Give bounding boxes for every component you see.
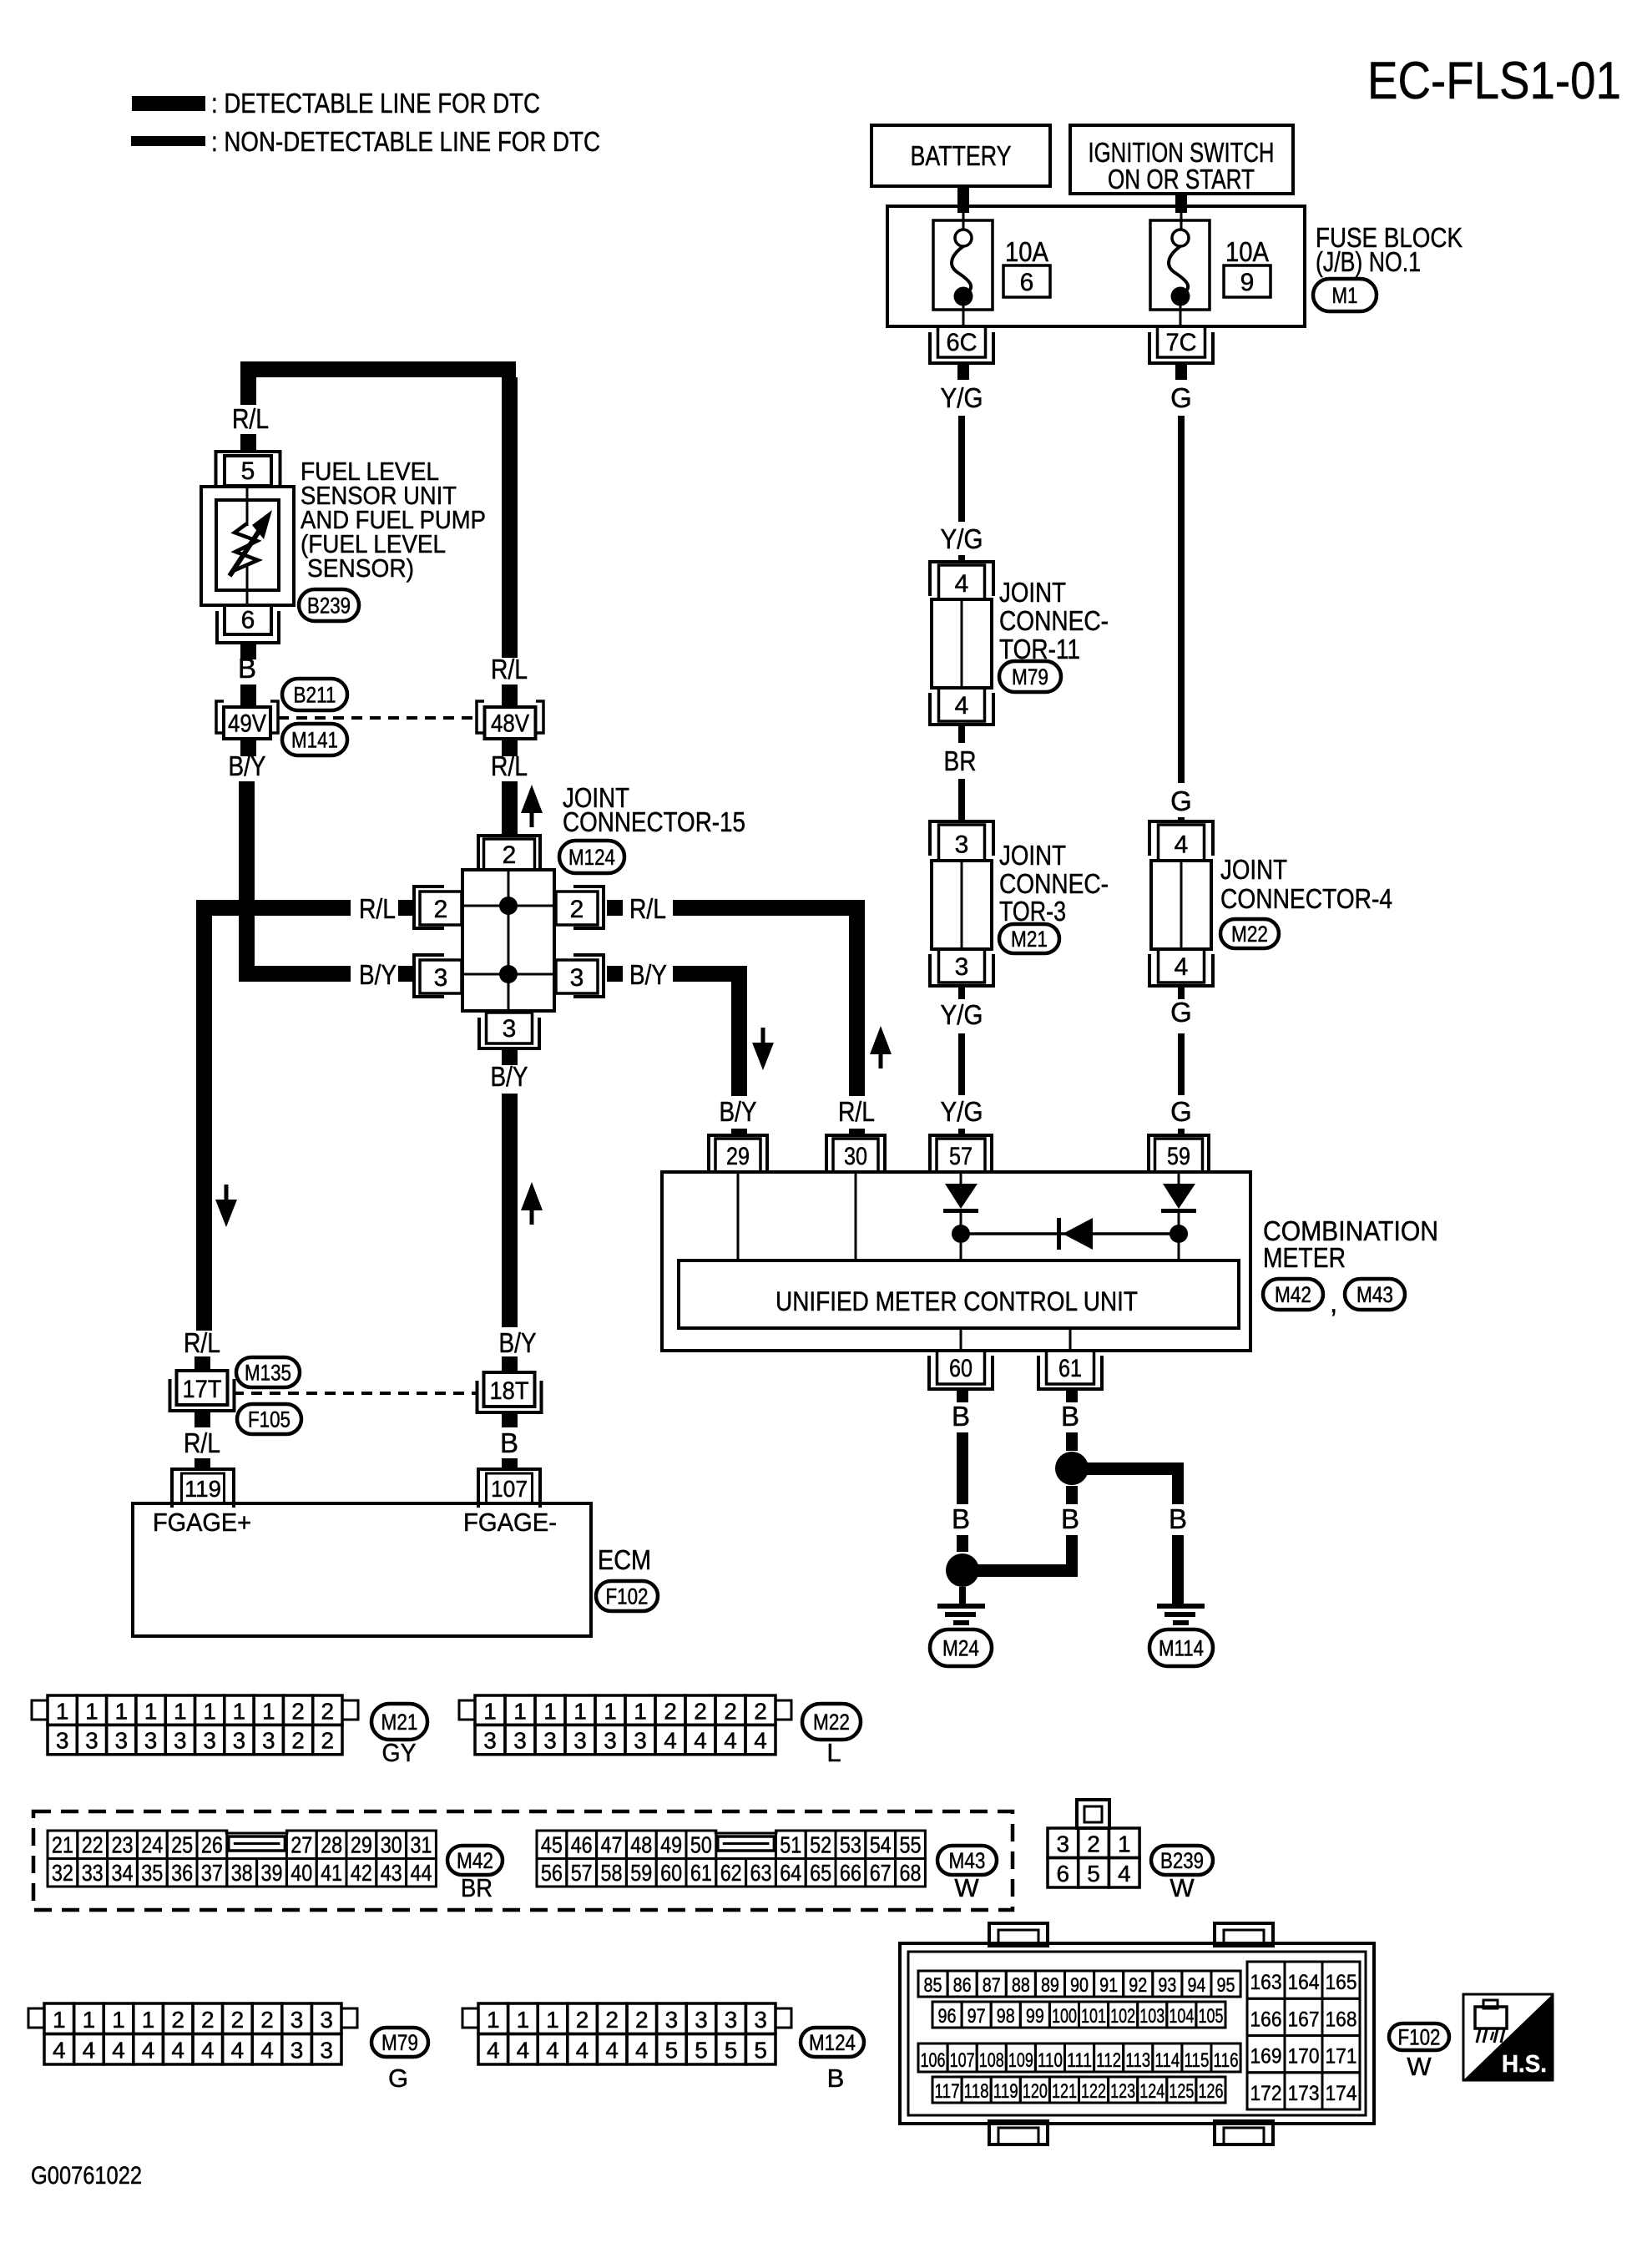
svg-text:B: B xyxy=(827,2064,845,2093)
wire stub above pin 119 xyxy=(195,1458,210,1469)
svg-text:35: 35 xyxy=(141,1860,163,1886)
wire stub above JC-4 xyxy=(1178,817,1185,822)
wire battery to fuse block xyxy=(957,186,969,230)
svg-text:10A: 10A xyxy=(1225,236,1269,267)
svg-text:22: 22 xyxy=(82,1832,104,1858)
svg-text:58: 58 xyxy=(601,1860,623,1886)
ground symbol M24 xyxy=(937,1604,985,1625)
svg-text:111: 111 xyxy=(1067,2049,1092,2072)
svg-text:4: 4 xyxy=(487,2038,500,2064)
connector M42 oval (pinout) xyxy=(447,1846,503,1875)
meter diode D3 (bus, pointing left) xyxy=(1057,1218,1093,1250)
wire 48V to JC-15 xyxy=(502,781,518,835)
svg-text:94: 94 xyxy=(1187,1974,1205,1997)
svg-text:1: 1 xyxy=(85,1698,99,1724)
svg-text:SENSOR): SENSOR) xyxy=(307,553,414,583)
svg-text:M79: M79 xyxy=(1012,664,1048,690)
svg-text:6: 6 xyxy=(1020,269,1034,296)
svg-text:: NON-DETECTABLE LINE FOR DTC: : NON-DETECTABLE LINE FOR DTC xyxy=(211,126,600,157)
wire stub below JC-15 bottom pin xyxy=(502,1050,518,1065)
svg-text:24: 24 xyxy=(141,1832,163,1858)
svg-text:6: 6 xyxy=(241,606,255,634)
svg-text:BATTERY: BATTERY xyxy=(911,140,1012,171)
svg-text:108: 108 xyxy=(979,2049,1004,2072)
svg-text:6: 6 xyxy=(1057,1861,1070,1887)
title EC-FLS1-01 xyxy=(1367,52,1621,110)
joint connector-4 body xyxy=(1151,861,1211,949)
svg-text:57: 57 xyxy=(571,1860,593,1886)
svg-text:25: 25 xyxy=(171,1832,193,1858)
svg-text:M21: M21 xyxy=(381,1710,418,1735)
svg-text:3: 3 xyxy=(203,1728,216,1754)
label R/L below 48V xyxy=(491,750,528,781)
svg-text:M22: M22 xyxy=(813,1710,850,1735)
svg-text:1: 1 xyxy=(513,1698,527,1724)
svg-text:2: 2 xyxy=(576,2007,589,2033)
svg-text:3: 3 xyxy=(174,1728,187,1754)
svg-text:1: 1 xyxy=(573,1698,587,1724)
svg-text:5: 5 xyxy=(695,2038,708,2064)
svg-text:3: 3 xyxy=(573,1728,587,1754)
svg-text:B/Y: B/Y xyxy=(499,1327,537,1358)
fuse F2 number box 9 xyxy=(1224,265,1271,297)
label R/L below 17T xyxy=(184,1427,220,1458)
junction dot JC-15 upper xyxy=(499,897,518,915)
wire stub above 18T xyxy=(502,1356,518,1372)
svg-text:23: 23 xyxy=(112,1832,134,1858)
wire stub above pin 57 xyxy=(958,1129,965,1136)
joint connector-15 left pin 3 xyxy=(414,955,462,997)
connector M24 oval xyxy=(930,1629,992,1666)
connector 7C xyxy=(1149,326,1213,363)
ignition switch box xyxy=(1070,125,1293,194)
svg-text:39: 39 xyxy=(261,1860,283,1886)
svg-text:5: 5 xyxy=(754,2038,767,2064)
wire R/L stub right pin 2 xyxy=(607,900,623,916)
joint connector-4 bottom pin 4 xyxy=(1149,949,1213,986)
joint connector-4 top pin 4 xyxy=(1149,821,1213,861)
svg-text:Y/G: Y/G xyxy=(941,382,983,413)
svg-text:117: 117 xyxy=(935,2080,960,2103)
wire branch to right xyxy=(1087,1462,1184,1475)
svg-text:34: 34 xyxy=(112,1860,134,1886)
svg-text:38: 38 xyxy=(231,1860,253,1886)
svg-text:B/Y: B/Y xyxy=(229,750,266,781)
junction dot above M24 ground xyxy=(946,1553,979,1587)
arrow down (to ECM FGAGE+) xyxy=(215,1185,237,1227)
svg-text:1: 1 xyxy=(546,2007,559,2033)
svg-text:95: 95 xyxy=(1217,1974,1235,1997)
meter pin 59 xyxy=(1149,1135,1209,1174)
joint connector-11 body xyxy=(932,599,992,688)
unified meter control unit box xyxy=(679,1260,1239,1328)
svg-text:114: 114 xyxy=(1154,2049,1180,2072)
svg-text:57: 57 xyxy=(949,1143,973,1170)
ground symbol M114 xyxy=(1157,1604,1205,1625)
svg-text:B/Y: B/Y xyxy=(491,1061,528,1092)
svg-text:67: 67 xyxy=(870,1860,892,1886)
H.S. view icon xyxy=(1463,1994,1553,2080)
svg-text:2: 2 xyxy=(664,1698,677,1724)
arrow up (into JC-15 from below) xyxy=(521,1182,543,1225)
figure number G00761022 xyxy=(31,2162,142,2190)
svg-text:H.S.: H.S. xyxy=(1502,2051,1547,2078)
svg-text:47: 47 xyxy=(601,1832,623,1858)
svg-text:52: 52 xyxy=(810,1832,831,1858)
svg-text:(J/B) NO.1: (J/B) NO.1 xyxy=(1316,246,1421,277)
svg-text:40: 40 xyxy=(290,1860,312,1886)
svg-text:: DETECTABLE LINE FOR DTC: : DETECTABLE LINE FOR DTC xyxy=(211,88,540,119)
svg-text:118: 118 xyxy=(964,2080,989,2103)
svg-text:93: 93 xyxy=(1158,1974,1176,1997)
svg-text:R/L: R/L xyxy=(232,403,269,434)
svg-text:3: 3 xyxy=(725,2007,738,2033)
label G below 7C xyxy=(1170,382,1192,413)
junction dot meter right xyxy=(1170,1225,1188,1243)
svg-text:4: 4 xyxy=(1175,831,1189,859)
svg-text:68: 68 xyxy=(900,1860,922,1886)
svg-text:125: 125 xyxy=(1169,2080,1194,2103)
svg-text:27: 27 xyxy=(290,1832,312,1858)
connector M135 oval xyxy=(236,1357,300,1387)
svg-text:65: 65 xyxy=(810,1860,831,1886)
svg-text:3: 3 xyxy=(290,2038,304,2064)
svg-text:3: 3 xyxy=(665,2007,679,2033)
svg-text:113: 113 xyxy=(1125,2049,1150,2072)
wire top bar (R/L) xyxy=(240,361,516,377)
connector F102 oval xyxy=(596,1581,658,1611)
connector B239 latch xyxy=(1077,1800,1109,1828)
wire stub below pin 60 xyxy=(957,1389,968,1402)
joint connector-15 left pin 2 xyxy=(414,887,462,928)
svg-text:FGAGE+: FGAGE+ xyxy=(153,1508,251,1537)
svg-text:2: 2 xyxy=(503,841,517,869)
label R/L above 48V xyxy=(491,654,528,685)
comma between M42 M43 xyxy=(1330,1287,1337,1318)
svg-text:4: 4 xyxy=(171,2038,184,2064)
svg-text:3: 3 xyxy=(434,964,448,992)
label R/L right of JC-15 xyxy=(629,893,666,924)
svg-text:17T: 17T xyxy=(183,1376,222,1403)
svg-text:30: 30 xyxy=(844,1143,867,1170)
svg-text:JOINT: JOINT xyxy=(1220,854,1287,885)
svg-text:R/L: R/L xyxy=(491,654,528,685)
label R/L top left xyxy=(232,403,269,434)
svg-text:10A: 10A xyxy=(1005,236,1048,267)
svg-text:101: 101 xyxy=(1081,2005,1106,2028)
wire stub below JC-4 xyxy=(1178,986,1185,999)
svg-text:3: 3 xyxy=(56,1728,69,1754)
wire B/Y JC-15 to 18T xyxy=(502,1094,518,1327)
svg-text:86: 86 xyxy=(953,1974,972,1997)
meter internal wires to pins 60 61 xyxy=(961,1328,1070,1351)
svg-text:85: 85 xyxy=(924,1974,942,1997)
svg-text:3: 3 xyxy=(320,2007,333,2033)
svg-text:CONNECTOR-15: CONNECTOR-15 xyxy=(563,806,745,837)
label BR xyxy=(944,745,977,776)
svg-text:5: 5 xyxy=(665,2038,679,2064)
svg-text:2: 2 xyxy=(260,2007,274,2033)
svg-text:M124: M124 xyxy=(568,845,615,870)
wire B/Y row right segment xyxy=(673,966,747,982)
wire stub below JC-3 xyxy=(958,986,965,999)
svg-text:G: G xyxy=(1170,382,1192,413)
svg-text:116: 116 xyxy=(1214,2049,1239,2072)
svg-text:4: 4 xyxy=(1118,1861,1131,1887)
joint connector-11 label xyxy=(999,577,1109,664)
svg-text:42: 42 xyxy=(351,1860,372,1886)
wire stub below 7C xyxy=(1175,365,1187,380)
joint connector-3 bottom pin 3 xyxy=(930,949,993,986)
svg-text:92: 92 xyxy=(1129,1974,1147,1997)
wire stub below 17T xyxy=(195,1411,210,1427)
svg-text:43: 43 xyxy=(381,1860,402,1886)
svg-text:CONNEC-: CONNEC- xyxy=(999,605,1109,636)
svg-text:GY: GY xyxy=(382,1738,417,1767)
connector B239 oval xyxy=(299,589,359,621)
svg-text:M141: M141 xyxy=(291,728,338,753)
svg-text:G: G xyxy=(1170,997,1192,1028)
connector M21 oval (pinout) xyxy=(371,1704,427,1740)
label B below pin 60 xyxy=(952,1401,970,1432)
wire ignition to fuse block xyxy=(1175,194,1187,230)
svg-text:3: 3 xyxy=(695,2007,708,2033)
svg-text:F105: F105 xyxy=(248,1407,290,1432)
dashed link 17T-18T xyxy=(233,1392,477,1395)
svg-text:50: 50 xyxy=(690,1832,712,1858)
svg-text:M24: M24 xyxy=(942,1636,979,1661)
joint connector-3 top pin 3 xyxy=(930,821,993,861)
svg-text:170: 170 xyxy=(1288,2045,1320,2069)
svg-text:B: B xyxy=(1061,1503,1079,1534)
connector M21 oval (JC-3) xyxy=(999,924,1059,953)
svg-text:44: 44 xyxy=(411,1860,432,1886)
svg-text:5: 5 xyxy=(725,2038,738,2064)
fuse F1 rating 10A label xyxy=(1005,236,1048,267)
svg-text:36: 36 xyxy=(171,1860,193,1886)
fuse block label xyxy=(1316,222,1463,277)
label R/L above 17T xyxy=(184,1327,220,1358)
wire left vertical drop to ECM xyxy=(196,900,212,1331)
label R/L left of JC-15 xyxy=(359,893,396,924)
wire right drop from top bar to 48V xyxy=(502,377,518,658)
combination meter label xyxy=(1263,1215,1438,1273)
svg-text:4: 4 xyxy=(664,1728,677,1754)
svg-text:61: 61 xyxy=(690,1860,712,1886)
svg-text:4: 4 xyxy=(955,692,969,720)
wire stub below 48V xyxy=(502,739,518,756)
svg-text:1: 1 xyxy=(56,1698,69,1724)
wire R/L drop to pin 30 xyxy=(849,916,865,1096)
svg-text:BR: BR xyxy=(461,1873,493,1902)
svg-text:1: 1 xyxy=(114,1698,128,1724)
svg-text:B211: B211 xyxy=(294,683,336,708)
svg-text:126: 126 xyxy=(1198,2080,1223,2103)
svg-text:1: 1 xyxy=(83,2007,96,2033)
svg-text:104: 104 xyxy=(1169,2005,1194,2028)
label W (B239) xyxy=(1170,1873,1195,1902)
svg-text:66: 66 xyxy=(840,1860,861,1886)
connector F105 oval xyxy=(237,1404,301,1434)
svg-text:2: 2 xyxy=(754,1698,767,1724)
joint connector-15 bottom pin 3 xyxy=(479,1013,539,1048)
meter pin 29 xyxy=(709,1135,767,1174)
svg-text:3: 3 xyxy=(144,1728,158,1754)
label G below JC-4 xyxy=(1170,997,1192,1028)
connector grid M43 xyxy=(537,1831,925,1887)
joint connector-15 label xyxy=(563,782,745,837)
svg-text:G: G xyxy=(1170,786,1192,816)
svg-text:4: 4 xyxy=(605,2038,619,2064)
label Y/G below 6C xyxy=(941,382,983,413)
dashed group box M42 M43 xyxy=(33,1811,1013,1910)
svg-text:Y/G: Y/G xyxy=(941,999,983,1030)
wire BR JC-11 to JC-3 xyxy=(958,779,965,821)
svg-text:102: 102 xyxy=(1110,2005,1135,2028)
wire B to horizontal link xyxy=(1066,1535,1078,1577)
joint connector-3 label xyxy=(999,840,1109,927)
wire stub below 49V xyxy=(240,739,256,756)
svg-text:98: 98 xyxy=(997,2005,1015,2028)
connector M124 oval (JC-15) xyxy=(559,841,624,873)
svg-text:2: 2 xyxy=(570,896,584,923)
connector M79 oval xyxy=(999,661,1061,692)
svg-text:3: 3 xyxy=(604,1728,617,1754)
connector grid M79 xyxy=(28,2003,357,2064)
connector grid M22 xyxy=(459,1695,791,1755)
svg-text:31: 31 xyxy=(411,1832,432,1858)
connector F102 shell xyxy=(900,1923,1374,2144)
legend: non-detectable line caption xyxy=(211,126,600,157)
svg-text:3: 3 xyxy=(543,1728,557,1754)
svg-text:21: 21 xyxy=(52,1832,73,1858)
svg-text:5: 5 xyxy=(241,457,255,485)
svg-text:49V: 49V xyxy=(228,710,266,738)
wire stub above pin 107 xyxy=(502,1458,518,1469)
wire Y/G 6C to JC-11 xyxy=(958,416,965,522)
combination meter box xyxy=(662,1172,1250,1351)
svg-text:G00761022: G00761022 xyxy=(31,2162,142,2190)
label G (M79) xyxy=(388,2064,408,2093)
svg-text:1: 1 xyxy=(262,1698,275,1724)
wire B pin 60 down xyxy=(957,1432,968,1504)
label G above pin 59 xyxy=(1170,1096,1192,1127)
label B below pin 61 xyxy=(1061,1401,1079,1432)
label B/Y above pin 29 xyxy=(720,1096,757,1127)
label G above JC-4 xyxy=(1170,786,1192,816)
svg-text:46: 46 xyxy=(571,1832,593,1858)
svg-text:1: 1 xyxy=(487,2007,500,2033)
svg-text:B/Y: B/Y xyxy=(720,1096,757,1127)
wire stub above JC-11 xyxy=(958,555,965,563)
label L xyxy=(826,1738,841,1767)
svg-text:1: 1 xyxy=(1118,1831,1131,1856)
connector M22 oval (pinout) xyxy=(802,1704,861,1740)
svg-text:4: 4 xyxy=(83,2038,96,2064)
label Y/G below JC-3 xyxy=(941,999,983,1030)
svg-text:96: 96 xyxy=(938,2005,957,2028)
svg-text:B239: B239 xyxy=(1160,1848,1204,1873)
svg-text:M43: M43 xyxy=(1356,1282,1393,1307)
svg-text:121: 121 xyxy=(1052,2080,1077,2103)
svg-text:4: 4 xyxy=(231,2038,245,2064)
svg-text:3: 3 xyxy=(85,1728,99,1754)
ECM pin 119 xyxy=(172,1469,234,1508)
svg-text:B: B xyxy=(1169,1503,1187,1534)
svg-text:BR: BR xyxy=(944,745,977,776)
svg-text:90: 90 xyxy=(1070,1974,1089,1997)
svg-text:168: 168 xyxy=(1326,2008,1357,2031)
svg-text:2: 2 xyxy=(321,1698,335,1724)
junction dot pin 61 branch xyxy=(1055,1452,1089,1485)
wire G 7C to JC-4 xyxy=(1178,416,1185,783)
wire stub above pin 5 xyxy=(240,434,256,451)
svg-text:,: , xyxy=(1330,1287,1337,1318)
svg-text:171: 171 xyxy=(1326,2045,1357,2069)
svg-text:1: 1 xyxy=(233,1698,246,1724)
connector grid M124 xyxy=(462,2003,791,2064)
svg-text:3: 3 xyxy=(483,1728,497,1754)
connector F102 pins 163-174 xyxy=(1247,1962,1360,2109)
svg-text:2: 2 xyxy=(694,1698,707,1724)
junction dot meter left xyxy=(952,1225,970,1243)
svg-text:R/L: R/L xyxy=(629,893,666,924)
svg-text:87: 87 xyxy=(983,1974,1001,1997)
svg-text:89: 89 xyxy=(1041,1974,1059,1997)
fuel level sensor caption xyxy=(301,457,486,583)
svg-text:61: 61 xyxy=(1058,1355,1082,1382)
connector M124 oval (pinout) xyxy=(801,2028,864,2057)
svg-text:120: 120 xyxy=(1023,2080,1048,2103)
svg-text:B: B xyxy=(238,653,256,684)
svg-text:174: 174 xyxy=(1326,2082,1357,2105)
connector F102 pins 85-95 xyxy=(918,1971,1240,1997)
svg-text:91: 91 xyxy=(1099,1974,1118,1997)
svg-text:4: 4 xyxy=(635,2038,649,2064)
svg-text:F102: F102 xyxy=(606,1584,649,1609)
wire left drop to fuel sensor xyxy=(240,377,256,405)
wire stub above 17T xyxy=(195,1356,210,1371)
svg-text:2: 2 xyxy=(1087,1831,1100,1856)
svg-text:30: 30 xyxy=(381,1832,402,1858)
svg-text:ECM: ECM xyxy=(598,1544,651,1575)
svg-text:3: 3 xyxy=(513,1728,527,1754)
svg-text:3: 3 xyxy=(754,2007,767,2033)
svg-text:Y/G: Y/G xyxy=(941,523,983,554)
connector M79 oval (pinout) xyxy=(371,2028,428,2057)
fuse F1 10A xyxy=(933,220,993,326)
meter pin 30 xyxy=(826,1135,885,1174)
label B mid left xyxy=(952,1503,970,1534)
svg-text:3: 3 xyxy=(503,1015,517,1043)
wire R/L row left segment xyxy=(196,900,351,916)
svg-text:165: 165 xyxy=(1326,1971,1357,1994)
svg-text:JOINT: JOINT xyxy=(999,577,1066,608)
meter internal bus xyxy=(961,1232,1179,1235)
svg-text:4: 4 xyxy=(754,1728,767,1754)
svg-text:173: 173 xyxy=(1288,2082,1320,2105)
ECM pin 107 xyxy=(478,1469,540,1508)
svg-text:2: 2 xyxy=(291,1698,305,1724)
label Y/G above JC-11 xyxy=(941,523,983,554)
connector F102 pins 117-126 xyxy=(932,2077,1225,2103)
wire stub to M24 ground xyxy=(959,1587,966,1604)
joint connector-15 body xyxy=(462,870,554,1011)
svg-text:2: 2 xyxy=(201,2007,215,2033)
label B/Y above 18T xyxy=(499,1327,537,1358)
svg-text:3: 3 xyxy=(570,964,584,992)
svg-text:49: 49 xyxy=(660,1832,682,1858)
